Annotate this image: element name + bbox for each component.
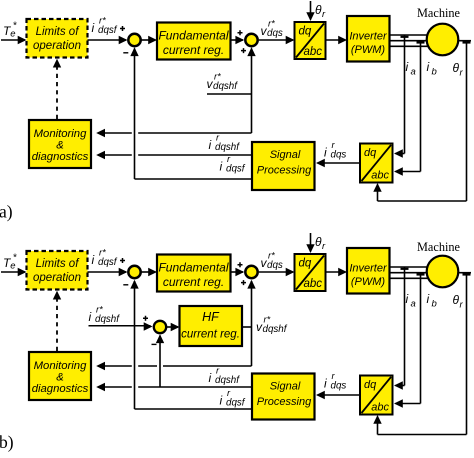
svg-text:Signal: Signal bbox=[270, 149, 301, 161]
wire dq/abc to inverter (b) bbox=[326, 271, 346, 273]
svg-text:b): b) bbox=[0, 432, 14, 452]
wire i_dqsf feedback to sum1 (b) bbox=[135, 408, 253, 410]
svg-text:&: & bbox=[56, 140, 64, 152]
svg-text:a): a) bbox=[0, 202, 13, 222]
wire Te* input arrow (a) bbox=[1, 39, 25, 41]
summing junction S3 (b) bbox=[154, 321, 166, 333]
svg-text:irdqs: irdqs bbox=[324, 371, 346, 392]
svg-text:current reg.: current reg. bbox=[163, 275, 224, 289]
svg-text:(PWM): (PWM) bbox=[351, 276, 386, 288]
svg-text:Inverter: Inverter bbox=[349, 31, 388, 43]
machine M (b) bbox=[427, 256, 459, 288]
svg-text:Machine: Machine bbox=[417, 240, 461, 254]
block dq-abc transform 1 (b) bbox=[295, 254, 326, 291]
wire v_dqshf* injection underline (a) bbox=[207, 93, 252, 95]
wire i_dqshf to monitoring (a) bbox=[138, 132, 251, 134]
block Inverter PWM (b) bbox=[347, 248, 390, 294]
svg-text:ib: ib bbox=[427, 60, 437, 78]
wire dashed monitoring to limits (b) bbox=[56, 293, 58, 351]
wire i_a current tap (b) bbox=[401, 268, 409, 270]
wire sum2 to dq/abc (b) bbox=[259, 271, 293, 273]
wire Fundamental to sum2 (a) bbox=[231, 39, 244, 41]
svg-text:irdqsf: irdqsf bbox=[220, 154, 246, 175]
wire i_dqshf up to sum3 (b) bbox=[159, 336, 161, 388]
block Monitoring and diagnostics (b) bbox=[29, 352, 91, 400]
machine M (a) bbox=[427, 24, 459, 56]
wire HF reg output to sum2 (b) bbox=[242, 326, 252, 328]
wire theta_r command input (b) bbox=[310, 233, 312, 252]
wire Te* input arrow (b) bbox=[1, 271, 25, 273]
svg-text:Processing: Processing bbox=[257, 165, 312, 177]
svg-text:vr*dqshf: vr*dqshf bbox=[256, 315, 288, 336]
svg-text:ia: ia bbox=[406, 60, 416, 78]
svg-text:ib: ib bbox=[427, 292, 437, 310]
svg-text:Limits of: Limits of bbox=[36, 26, 81, 38]
svg-text:abc: abc bbox=[371, 402, 389, 414]
wire 3-phase bus (b) bbox=[390, 266, 429, 268]
wire theta_r feedback (b) bbox=[458, 272, 471, 274]
wire Limits to sum1 (a) bbox=[88, 39, 127, 41]
svg-text:θr: θr bbox=[453, 293, 464, 311]
wire dq/abc to inverter (a) bbox=[326, 39, 346, 41]
block Monitoring and diagnostics (a) bbox=[29, 120, 91, 168]
block Limits of operation (a) bbox=[27, 19, 88, 58]
wire Limits to sum1 (b) bbox=[88, 271, 127, 273]
svg-text:current reg.: current reg. bbox=[163, 43, 224, 57]
wire theta_r command input (a) bbox=[310, 1, 312, 20]
block Inverter PWM (a) bbox=[347, 16, 390, 62]
svg-text:vr*dqs: vr*dqs bbox=[261, 251, 283, 272]
svg-text:Processing: Processing bbox=[257, 396, 312, 408]
wire i_dqshf to monitoring (b) bbox=[163, 365, 252, 367]
svg-text:operation: operation bbox=[33, 272, 81, 284]
svg-text:Limits of: Limits of bbox=[36, 258, 81, 270]
svg-text:θr: θr bbox=[315, 3, 326, 20]
wire i_dqshf* ref underline to sum3 (b) bbox=[89, 325, 151, 327]
wire i_a current tap (a) bbox=[401, 36, 409, 38]
svg-text:dq: dq bbox=[299, 258, 312, 270]
wire sum1 to Fundamental reg (a) bbox=[142, 39, 156, 41]
svg-text:irdqshf: irdqshf bbox=[209, 133, 241, 154]
svg-text:current reg.: current reg. bbox=[181, 329, 240, 341]
svg-text:abc: abc bbox=[371, 170, 389, 182]
wire sum3 to HF reg (b) bbox=[167, 326, 178, 328]
wire sum2 to dq/abc (a) bbox=[259, 39, 293, 41]
svg-text:Monitoring: Monitoring bbox=[34, 128, 87, 140]
block dq-abc transform 1 (a) bbox=[295, 22, 326, 59]
svg-text:ir*dqsf: ir*dqsf bbox=[92, 16, 118, 37]
wire i_dqsf to monitoring (a) bbox=[138, 154, 252, 156]
svg-text:(PWM): (PWM) bbox=[351, 44, 386, 56]
svg-text:&: & bbox=[56, 372, 64, 384]
block dq-abc transform 2 (b) bbox=[360, 376, 393, 415]
svg-text:dq: dq bbox=[299, 26, 312, 38]
wire i_b current tap (a) bbox=[417, 41, 425, 43]
wire injection up to sum2 (a) bbox=[251, 49, 253, 134]
svg-text:diagnostics: diagnostics bbox=[32, 151, 89, 163]
svg-text:Fundamental: Fundamental bbox=[158, 29, 228, 43]
svg-text:Te*: Te* bbox=[3, 253, 18, 272]
svg-text:vr*dqs: vr*dqs bbox=[261, 19, 283, 40]
svg-text:Inverter: Inverter bbox=[349, 263, 388, 275]
summing junction S2 (b) bbox=[245, 266, 257, 278]
summing junction S1 (b) bbox=[128, 266, 140, 278]
wire i_b current tap (b) bbox=[417, 273, 425, 275]
svg-text:vr*dqshf: vr*dqshf bbox=[207, 72, 239, 93]
svg-text:irdqsf: irdqsf bbox=[220, 388, 246, 409]
svg-text:dq: dq bbox=[364, 379, 377, 391]
wire 3-phase bus (a) bbox=[390, 34, 429, 36]
svg-text:Machine: Machine bbox=[417, 6, 461, 20]
block Signal Processing (b) bbox=[252, 374, 315, 420]
wire Fundamental to sum2 (b) bbox=[231, 271, 244, 273]
svg-text:abc: abc bbox=[303, 278, 322, 290]
svg-text:operation: operation bbox=[33, 40, 81, 52]
svg-text:dq: dq bbox=[364, 147, 377, 159]
block Fundamental current reg (a) bbox=[157, 23, 231, 60]
svg-text:ir*dqsf: ir*dqsf bbox=[92, 248, 118, 269]
svg-text:θr: θr bbox=[453, 61, 464, 79]
block Signal Processing (a) bbox=[252, 142, 315, 190]
wire i_dqs to signal processing (a) bbox=[318, 162, 361, 164]
svg-text:Signal: Signal bbox=[270, 381, 301, 393]
block Limits of operation (b) bbox=[27, 251, 88, 290]
wire i_dqshf feedback line (b) bbox=[138, 386, 252, 388]
svg-text:ia: ia bbox=[406, 292, 416, 310]
svg-text:diagnostics: diagnostics bbox=[32, 383, 89, 395]
svg-text:θr: θr bbox=[315, 235, 326, 252]
block dq-abc transform 2 (a) bbox=[360, 144, 393, 183]
svg-text:irdqs: irdqs bbox=[324, 140, 346, 161]
svg-text:HF: HF bbox=[202, 310, 220, 324]
svg-text:irdqshf: irdqshf bbox=[209, 366, 241, 387]
wire sum1 to Fundamental reg (b) bbox=[142, 271, 156, 273]
block HF current reg (b) bbox=[180, 306, 243, 346]
svg-text:Monitoring: Monitoring bbox=[34, 360, 87, 372]
svg-text:ir*dqshf: ir*dqshf bbox=[89, 305, 121, 326]
wire i_dqs to signal processing (b) bbox=[318, 394, 361, 396]
wire dashed monitoring to limits (a) bbox=[56, 61, 58, 119]
svg-text:Fundamental: Fundamental bbox=[158, 261, 228, 275]
block Fundamental current reg (b) bbox=[157, 255, 231, 292]
wire theta_r feedback (a) bbox=[458, 40, 471, 42]
summing junction S2 (a) bbox=[245, 34, 257, 46]
summing junction S1 (a) bbox=[128, 34, 140, 46]
svg-text:abc: abc bbox=[303, 46, 322, 58]
svg-text:Te*: Te* bbox=[3, 21, 18, 40]
wire i_dqsf feedback to sum1 (a) bbox=[135, 178, 253, 180]
